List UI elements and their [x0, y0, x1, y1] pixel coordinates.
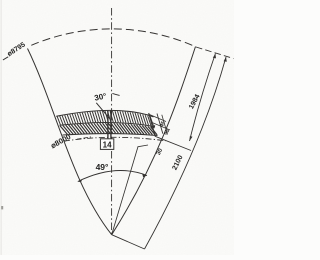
- 49 degree angle dimension arc: [78, 171, 147, 182]
- svg-text:14: 14: [103, 141, 112, 150]
- inner reference arc dash-dot (diameter 8000): [64, 137, 166, 141]
- taper callout line 30deg: [96, 103, 109, 119]
- hatching upper course: [57, 111, 153, 126]
- arrowhead L3 top: [224, 57, 227, 62]
- centerline (vertical dash-dot axis): [111, 8, 113, 235]
- dimension line 2100 (long, to apex tangent): [145, 57, 227, 249]
- arrow to band end face: [150, 125, 155, 128]
- dimension line 1984: [190, 54, 216, 141]
- top tangent extension: [196, 47, 234, 59]
- second small parallel line: [162, 115, 167, 133]
- svg-text:49°: 49°: [96, 162, 109, 172]
- key slot: [107, 111, 109, 139]
- radial leader to apex (30 dim extension): [112, 147, 138, 234]
- segment band inner arc: [63, 134, 158, 136]
- scan page edge artifact: [0, 0, 2, 255]
- band right end face: [149, 113, 156, 136]
- boxed dimension 14 (key width): [100, 139, 113, 150]
- apex tangent spur: [112, 235, 145, 249]
- tiny connector ticks: [150, 115, 167, 122]
- segment band outer arc: [56, 110, 153, 116]
- big dashed reference arc (diameter 8795): [3, 57, 8, 60]
- right radial edge line: [112, 47, 196, 235]
- small parallel dimension line at band end: [157, 114, 163, 134]
- tangent tick at band outer radius: [155, 136, 191, 150]
- hatching lower course: [60, 123, 157, 135]
- left radial edge line: [28, 49, 112, 235]
- diameter label 8000 with dashed leader: [77, 137, 91, 139]
- segment band middle joint arc: [60, 123, 156, 127]
